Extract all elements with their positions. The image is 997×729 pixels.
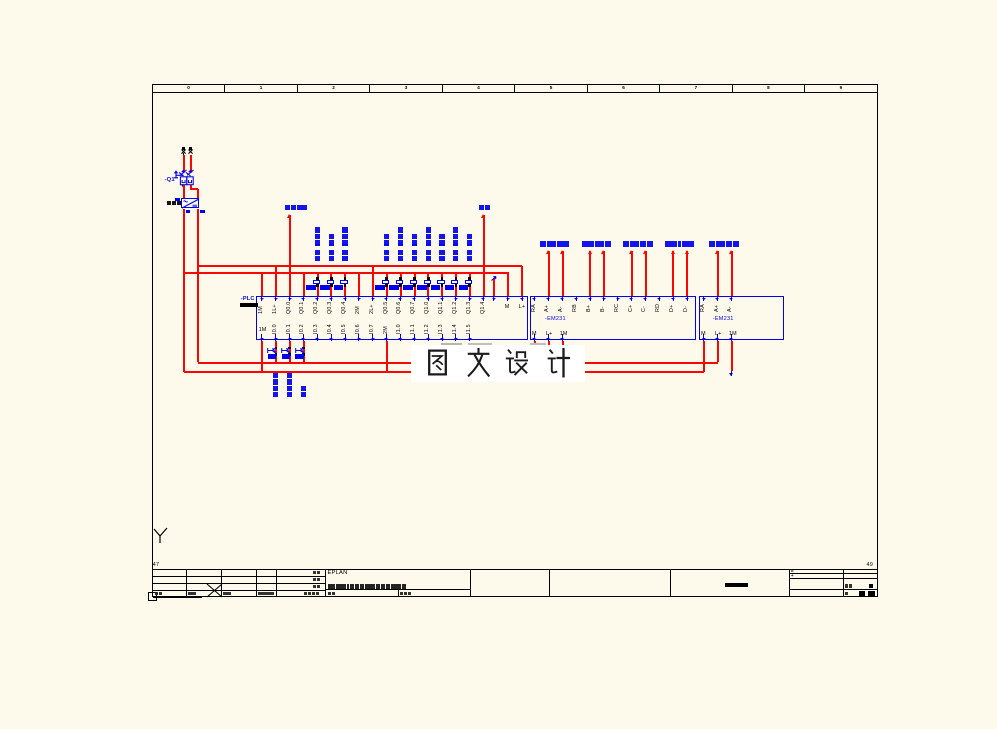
PLC bottom terminal I0.1 xyxy=(289,334,290,341)
pin label Q0.2 xyxy=(314,301,319,314)
title block thick revision underline xyxy=(153,596,203,598)
PLC top terminal aux xyxy=(493,297,494,301)
EM231#2 1M end arrow xyxy=(731,371,732,376)
pin label I1.5 xyxy=(467,324,472,334)
ruler digit 2 xyxy=(332,86,335,91)
title block row line xyxy=(153,575,326,578)
wire bus B to output 331 xyxy=(330,272,332,296)
ruler divider 7 xyxy=(659,84,660,92)
analog module EM231 #2 box xyxy=(699,296,784,340)
title block column line xyxy=(669,569,672,597)
PLC top terminal Q0.0 xyxy=(289,297,290,301)
PLC top terminal Q1.1 xyxy=(442,297,443,301)
pin label Q0.7 xyxy=(411,301,416,314)
EM231#1 terminal B- xyxy=(603,297,604,301)
pin label 2M xyxy=(384,326,389,334)
terminal X1:1 xyxy=(182,147,186,150)
power supply G1 (AC/DC converter) xyxy=(181,198,199,208)
EM231#1 bottom terminal M xyxy=(534,334,535,341)
wire bus B to output 387 xyxy=(386,272,388,296)
PSU terminal tag bottom M xyxy=(200,210,205,213)
PLC bottom terminal I1.5 xyxy=(469,334,470,341)
title block row line xyxy=(153,582,326,585)
PLC top terminal Q0.6 xyxy=(400,297,401,301)
PLC top terminal Q0.4 xyxy=(345,297,346,301)
EM231 #1 device tag xyxy=(545,317,566,323)
drawing frame outer border left xyxy=(152,84,153,597)
pin label 2M xyxy=(356,306,361,314)
ruler digit 0 xyxy=(187,86,190,91)
watermark white box xyxy=(411,345,585,383)
pin label D- xyxy=(684,306,689,312)
wire EM231#1 1M down xyxy=(562,341,564,368)
EM231#1 terminal RB xyxy=(576,297,577,301)
wire EM231#2 1M to potential arrow xyxy=(731,341,733,371)
PSU terminal tag bottom L+ xyxy=(186,210,190,213)
pin label Q1.1 xyxy=(439,301,444,314)
EM231#1 terminal A+ xyxy=(548,297,549,301)
pin label Q0.5 xyxy=(384,301,389,314)
cable label above output column 7 xyxy=(426,256,431,261)
pin label Q1.0 xyxy=(425,301,430,314)
connector/fuse symbol on output column 10 xyxy=(468,277,471,279)
page number 47 bottom-left xyxy=(153,563,159,568)
ruler divider 9 xyxy=(804,84,805,92)
bus C (bottom upper) xyxy=(198,362,718,364)
connector/fuse symbol on output column 9 xyxy=(455,277,458,279)
PLC bottom terminal I1.2 xyxy=(428,334,429,341)
pin label 1L+ xyxy=(273,304,278,314)
wire breaker pole1 to PSU xyxy=(183,185,185,198)
page number 49 bottom-right xyxy=(867,563,873,568)
pin label I0.7 xyxy=(370,324,375,334)
pin label M xyxy=(701,332,706,337)
wire sensor 5 to terminal xyxy=(731,251,733,296)
PLC top terminal Q1.2 xyxy=(455,297,456,301)
analog module EM231 #1 box xyxy=(530,296,696,340)
wire bus B to output 345 xyxy=(344,272,346,296)
sensor label 温区5温度 xyxy=(709,241,715,247)
terminal X1:2 xyxy=(189,147,193,150)
bus B (lower, from W1) xyxy=(184,272,509,274)
cable label above output column 10 xyxy=(467,256,472,261)
wire N to breaker xyxy=(190,155,192,173)
PLC top terminal Q0.7 xyxy=(414,297,415,301)
EM231#2 bottom terminal 1M xyxy=(731,334,732,341)
EM231#1 terminal D+ xyxy=(673,297,674,301)
ruler divider 2 xyxy=(297,84,298,92)
input label below column 0 xyxy=(273,392,278,397)
PSU terminal tag top-left xyxy=(175,198,180,201)
title row line xyxy=(325,588,470,591)
pin label I1.3 xyxy=(439,324,444,334)
connector/fuse symbol on output column 8 xyxy=(441,277,444,279)
title block divider xyxy=(397,590,400,597)
page box xyxy=(859,591,865,595)
PLC top terminal 1L+ xyxy=(275,297,276,301)
label 批准 xyxy=(313,585,317,589)
cable label above output column 9 xyxy=(453,256,458,261)
input label below column 1 xyxy=(287,392,292,397)
wire bus B to output 442 xyxy=(441,272,443,296)
bus D (bottom lower) xyxy=(184,371,704,373)
cable label above output column 4 xyxy=(384,256,389,261)
EM231#1 terminal C+ xyxy=(631,297,632,301)
EM231#1 bottom terminal 1M xyxy=(562,334,563,341)
ruler divider 5 xyxy=(514,84,515,92)
wire breaker pole2 dogleg to PSU xyxy=(190,185,192,189)
EM231#1 terminal B+ xyxy=(590,297,591,301)
EM231#2 bottom terminal M xyxy=(703,334,704,341)
ruler divider 1 xyxy=(224,84,225,92)
pin label I0.0 xyxy=(273,324,278,334)
title block outer xyxy=(153,569,878,570)
label 校对 xyxy=(313,578,317,582)
cable label above output column 3 xyxy=(342,256,347,261)
PLC top terminal 1M xyxy=(261,297,262,301)
ruler digit 4 xyxy=(477,86,480,91)
small square outside bottom-left corner xyxy=(148,592,157,602)
title block column line xyxy=(220,569,223,597)
aux stub wire right of Q1.4 xyxy=(493,278,495,296)
pin label RA xyxy=(701,304,706,312)
ruler divider 4 xyxy=(442,84,443,92)
connector/fuse symbol on output column 5 xyxy=(399,277,402,279)
pin label RD xyxy=(656,304,661,312)
sensor label 温区3温度 xyxy=(623,241,629,247)
wire input I0.0 down to bus C xyxy=(275,341,277,363)
ruler digit 6 xyxy=(622,86,625,91)
EM231 #2 device tag xyxy=(713,317,734,323)
PLC bottom terminal 1M xyxy=(261,334,262,341)
pin label I0.2 xyxy=(300,324,305,334)
title block column line xyxy=(275,569,278,597)
wire bus A to 2L+ xyxy=(372,266,374,297)
pin label L+ xyxy=(546,332,553,337)
PLC top terminal Q0.2 xyxy=(317,297,318,301)
connector/fuse symbol on output column 6 xyxy=(413,277,416,279)
PSU name label (black) xyxy=(167,201,171,205)
wire sensor 1 to terminal xyxy=(548,251,550,296)
PLC top terminal Q0.5 xyxy=(386,297,387,301)
EPLAN text xyxy=(328,571,348,577)
label 图页 xyxy=(845,584,849,588)
label 审核人 xyxy=(400,592,404,596)
pin label M xyxy=(532,332,537,337)
PLC top terminal M xyxy=(507,297,508,301)
wire sensor 3 to terminal xyxy=(645,251,647,296)
PLC top terminal Q1.0 xyxy=(428,297,429,301)
PLC bottom terminal I0.2 xyxy=(303,334,304,341)
EM231#1 terminal RA xyxy=(534,297,535,301)
pin label I0.6 xyxy=(356,324,361,334)
pin label Q0.0 xyxy=(287,301,292,314)
pin label I0.4 xyxy=(328,324,333,334)
PLC bottom terminal I0.5 xyxy=(345,334,346,341)
sensor label 温区1温度 xyxy=(540,241,546,247)
ruler divider 6 xyxy=(587,84,588,92)
PLC bottom terminal I0.7 xyxy=(372,334,373,341)
PLC bottom terminal I1.4 xyxy=(455,334,456,341)
label 日期 xyxy=(313,571,317,575)
PLC top terminal L+ xyxy=(522,297,523,301)
title block column line xyxy=(788,569,791,597)
struct row + xyxy=(790,577,878,580)
title block column line xyxy=(185,569,188,597)
PLC bottom terminal I0.3 xyxy=(317,334,318,341)
label 原始依据 xyxy=(258,592,262,596)
wire bus B to output 470 xyxy=(469,272,471,296)
cable label above output column 2 xyxy=(329,256,334,261)
wire sensor 4 to terminal xyxy=(672,251,674,296)
Y reference symbol on left border xyxy=(152,527,170,545)
pin label Q1.2 xyxy=(453,301,458,314)
EM231#2 bottom terminal L+ xyxy=(717,334,718,341)
EM231#2 terminal A+ xyxy=(717,297,718,301)
drawing frame outer border right xyxy=(877,84,878,597)
plug connector symbol input 2 xyxy=(302,347,305,349)
pin label L+ xyxy=(519,305,526,310)
pin label B+ xyxy=(587,305,592,312)
bus A (upper, from W2) xyxy=(198,265,523,267)
wire W1: PSU left output down xyxy=(183,209,185,372)
wire sensor 2 to terminal xyxy=(603,251,605,296)
arrow 定时输出 xyxy=(287,214,291,218)
PLC bottom terminal 2M xyxy=(386,334,387,341)
title block column line xyxy=(255,569,258,597)
title block column line xyxy=(324,569,327,597)
wire bus B to 2M xyxy=(358,272,360,296)
wire W2: PSU right output down xyxy=(197,209,199,363)
connector/fuse symbol on output column 1 xyxy=(316,277,319,279)
faint watermark remnant marks xyxy=(441,343,462,345)
label 冷水 xyxy=(479,205,484,210)
project title line xyxy=(328,584,333,589)
EM231#2 terminal RA xyxy=(703,297,704,301)
cable label above output column 5 xyxy=(398,256,403,261)
company logo filled bar xyxy=(725,583,748,587)
pin label I1.4 xyxy=(453,324,458,334)
wire EM231#2 L+ to bus C xyxy=(717,341,719,363)
wire PLC bottom 2M to bus D xyxy=(386,341,388,372)
pin label C- xyxy=(642,306,647,312)
wire bus A corner to L+ xyxy=(521,266,523,297)
revision X cross xyxy=(206,583,223,598)
wire Q1.4 to interruption point 冷水 xyxy=(483,215,485,296)
connector/fuse symbol on output column 7 xyxy=(427,277,430,279)
pin label I1.2 xyxy=(425,324,430,334)
sensor label 温区4温度 xyxy=(665,241,671,247)
PLC bottom terminal I0.6 xyxy=(358,334,359,341)
wire bus B to 1M xyxy=(261,272,263,296)
pin label A+ xyxy=(545,305,550,312)
ruler digit 8 xyxy=(767,86,770,91)
wire sensor 5 to terminal xyxy=(717,251,719,296)
pin label I1.1 xyxy=(411,324,416,334)
wire bus B to output 317 xyxy=(317,272,319,296)
plug connector symbol input 1 xyxy=(288,347,291,349)
pin label 1M xyxy=(560,332,568,337)
breaker label -Q1 xyxy=(165,178,175,184)
PLC top terminal 2M xyxy=(358,297,359,301)
pin label 1M xyxy=(259,328,267,333)
ruler digit 9 xyxy=(840,86,843,91)
pin label Q1.3 xyxy=(467,301,472,314)
PLC bottom terminal I1.1 xyxy=(414,334,415,341)
label 出图依据 xyxy=(304,592,308,596)
title block column line xyxy=(469,569,472,597)
struct row = xyxy=(790,572,878,575)
pin label M xyxy=(505,305,510,310)
pin label Q0.6 xyxy=(397,301,402,314)
wire bus B to output 400 xyxy=(400,272,402,296)
connector/fuse symbol on output column 4 xyxy=(385,277,388,279)
cable label above output column 1 xyxy=(315,256,320,261)
wire L to breaker xyxy=(183,155,185,173)
pin label C+ xyxy=(629,304,634,311)
wire input I0.1 down to bus C xyxy=(289,341,291,363)
label 图号 xyxy=(328,592,332,596)
label 页 xyxy=(845,592,849,596)
wire EM231#1 M to bus D xyxy=(534,341,536,372)
PLC top terminal Q1.3 xyxy=(469,297,470,301)
pin label RA xyxy=(532,304,537,312)
label 定时输出 xyxy=(285,205,290,210)
ruler divider 3 xyxy=(369,84,370,92)
EM231#1 terminal D- xyxy=(687,297,688,301)
pin label B- xyxy=(601,306,606,312)
PLC top terminal 2L+ xyxy=(372,297,373,301)
pin label A+ xyxy=(715,305,720,312)
label 姓名 xyxy=(223,592,227,596)
pin label Q0.1 xyxy=(300,301,305,314)
ruler digit 7 xyxy=(695,86,698,91)
watermark text 图 文 设 计 xyxy=(428,348,570,378)
wire sensor 4 to terminal xyxy=(686,251,688,296)
pin label RC xyxy=(615,304,620,312)
wire bus B to output 456 xyxy=(455,272,457,296)
PLC main module box xyxy=(256,296,528,340)
EM231#1 terminal RC xyxy=(617,297,618,301)
page count box xyxy=(869,584,874,588)
pin label I0.1 xyxy=(287,324,292,334)
pin label A- xyxy=(559,306,564,312)
pin label 1M xyxy=(729,332,737,337)
page box 2 xyxy=(868,591,875,597)
cable label above output column 6 xyxy=(412,256,417,261)
wire bus B to Q0.1 xyxy=(303,272,305,296)
wire EM231#1 L+ to bus C xyxy=(548,341,550,363)
PLC tag black underbar xyxy=(240,303,258,307)
PLC bottom terminal I0.4 xyxy=(331,334,332,341)
PLC bottom terminal I1.3 xyxy=(442,334,443,341)
PLC top terminal Q1.4 xyxy=(483,297,484,301)
connector/fuse symbol on output column 3 xyxy=(344,277,347,279)
PLC bottom terminal I0.0 xyxy=(275,334,276,341)
ruler digit 1 xyxy=(260,86,263,91)
pin label 2L+ xyxy=(370,304,375,314)
wire sensor 3 to terminal xyxy=(631,251,633,296)
ruler divider 8 xyxy=(732,84,733,92)
wire bus A to 1L+ xyxy=(275,266,277,297)
cable label above output column 8 xyxy=(439,256,444,261)
title block column line xyxy=(548,569,551,597)
label 日期 xyxy=(188,592,192,596)
label 修改 xyxy=(155,592,159,596)
wire sensor 2 to terminal xyxy=(589,251,591,296)
PLC top terminal Q0.3 xyxy=(331,297,332,301)
EM231#2 terminal A- xyxy=(731,297,732,301)
ruler digit 5 xyxy=(550,86,553,91)
struct row line xyxy=(790,588,878,591)
pin label 1M xyxy=(259,306,264,314)
EM231#1 bottom terminal L+ xyxy=(548,334,549,341)
PLC bottom terminal I1.0 xyxy=(400,334,401,341)
arrow 冷水 xyxy=(481,214,485,218)
wire bus B to output 414 xyxy=(414,272,416,296)
wire bus B corner to M xyxy=(507,272,509,296)
input label below column 2 xyxy=(301,392,306,397)
PLC device tag xyxy=(241,297,255,303)
PLC top terminal Q0.1 xyxy=(303,297,304,301)
pin label Q0.4 xyxy=(342,301,347,314)
pin label I1.0 xyxy=(397,324,402,334)
plug connector symbol input 0 xyxy=(275,347,278,349)
wire sensor 1 to terminal xyxy=(562,251,564,296)
drawing frame top ruler band xyxy=(153,84,878,85)
title block row line xyxy=(153,589,326,592)
pin label L+ xyxy=(715,332,722,337)
pin label RB xyxy=(573,304,578,312)
title block column line xyxy=(842,569,845,597)
pin label A- xyxy=(728,306,733,312)
EM231#1 terminal C- xyxy=(645,297,646,301)
circuit breaker Q1 xyxy=(163,165,199,189)
connector/fuse symbol on output column 2 xyxy=(330,277,333,279)
pin label I0.3 xyxy=(314,324,319,334)
pin label Q0.3 xyxy=(328,301,333,314)
wire Q0.0 to interruption point 定时输出 xyxy=(289,215,291,296)
wire input I0.2 down to bus C xyxy=(303,341,305,363)
wire EM231#2 M to bus D xyxy=(703,341,705,372)
sensor label 温区2温度 xyxy=(582,241,588,247)
wire PLC bottom 1M to bus D xyxy=(261,341,263,372)
pin label I0.5 xyxy=(342,324,347,334)
ruler digit 3 xyxy=(405,86,408,91)
wire bus B to output 428 xyxy=(427,272,429,296)
pin label D+ xyxy=(670,304,675,311)
EM231#1 terminal RD xyxy=(659,297,660,301)
EM231#1 terminal A- xyxy=(562,297,563,301)
pin label Q1.4 xyxy=(481,301,486,314)
